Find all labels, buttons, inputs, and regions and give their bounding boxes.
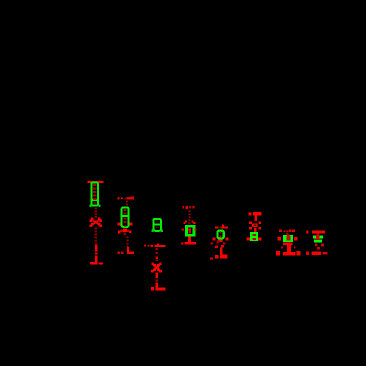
channel 1 — [88, 181, 104, 265]
resistor R5 — [217, 231, 223, 239]
wire — [95, 208, 97, 218]
pin wings — [278, 237, 281, 241]
flares at R1 bottom — [90, 204, 92, 206]
wire — [127, 247, 129, 252]
LED D4 — [183, 220, 195, 224]
wire — [95, 245, 98, 263]
LED D8 — [315, 244, 324, 250]
channel 8 — [306, 230, 328, 255]
value text inside R1 — [93, 184, 97, 204]
wire — [126, 236, 128, 247]
ground — [90, 262, 97, 265]
ground wings — [247, 237, 250, 240]
pin row on R4 — [181, 228, 184, 230]
value text inside R5 — [219, 232, 221, 234]
ground — [127, 251, 134, 254]
resistor R4 — [185, 225, 195, 237]
channel 4 — [181, 206, 197, 245]
resistor R1 — [91, 183, 99, 206]
net label bar — [215, 226, 219, 228]
node label — [144, 244, 153, 247]
wire dot — [286, 233, 288, 235]
net label — [182, 206, 194, 209]
pin ticks — [117, 222, 120, 225]
wire — [126, 201, 128, 203]
resistor R6 — [250, 232, 258, 241]
channel 3 — [144, 219, 165, 291]
channel 7 — [276, 229, 301, 255]
power tee — [248, 212, 251, 215]
value text inside R6 — [253, 234, 257, 236]
resistor R8 — [313, 236, 323, 243]
wire — [156, 248, 158, 261]
channel 2 — [117, 197, 134, 255]
LED D3 — [153, 264, 161, 272]
wire — [287, 245, 291, 252]
net label — [118, 197, 135, 200]
resistor R2 — [121, 207, 129, 227]
wire — [220, 248, 223, 256]
LED D7 — [283, 243, 293, 246]
value text inside R2 — [124, 209, 127, 226]
ground — [184, 242, 195, 245]
wire — [188, 237, 191, 243]
value text inside R7 — [286, 236, 290, 240]
wire — [156, 272, 158, 278]
pin wing dots — [213, 238, 216, 241]
net label — [279, 229, 295, 232]
LED D2 — [118, 229, 132, 235]
LED D6 — [249, 221, 261, 232]
ground — [306, 252, 309, 255]
power rail bar — [88, 181, 104, 183]
channel 6 — [247, 212, 262, 241]
value text inside R4 — [188, 231, 191, 234]
value text inside R8 — [316, 235, 319, 238]
ground — [220, 255, 228, 259]
net label + bar — [306, 231, 309, 234]
resistor R3 — [153, 219, 161, 231]
wire — [95, 228, 98, 244]
wire — [188, 210, 190, 220]
ground — [155, 283, 158, 289]
ground — [283, 252, 295, 256]
wire tee — [155, 245, 166, 247]
channel 5 — [210, 224, 228, 259]
resistor R7 — [283, 235, 293, 242]
LED D5 — [211, 241, 226, 248]
ground label — [118, 251, 120, 253]
LED D1 — [91, 219, 101, 226]
flares at R3 bottom — [152, 230, 154, 232]
value text inside R3 — [156, 221, 159, 223]
